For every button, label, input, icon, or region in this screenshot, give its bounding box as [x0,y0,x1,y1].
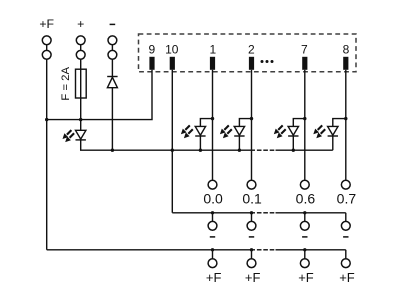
label - (input) [110,23,116,25]
junction - column / return rail [111,149,114,152]
svg-text:F = 2A: F = 2A [60,67,72,101]
terminal + a [76,36,85,45]
output terminal 0.6 [300,180,309,189]
output terminal 0.1 [247,180,256,189]
connector dashed outline [139,34,357,72]
junction minus rail ch1 [211,211,214,214]
minus distribution rail [172,212,255,214]
wire diode V1 to LED return rail [111,88,113,151]
wire pin 1 to output 0.0 [212,70,214,180]
wire LED D1 cathode to return rail [81,140,113,150]
terminal + b [76,50,85,59]
junction minus rail ch7 [303,211,306,214]
+F rail dashed continuation [257,249,274,251]
junction pin10 / return rail [171,149,174,152]
wire tap to LED D2 [200,119,212,127]
wire between + terminals [80,44,82,51]
output terminal 0.0 [208,180,217,189]
svg-text:1: 1 [209,43,216,57]
junction pin 8 LED tap [344,117,347,120]
stub to minus terminal ch7 [304,213,306,222]
terminal - b [108,50,117,59]
wire + terminal to fuse [80,59,82,69]
wire between +F terminals [46,44,48,51]
stub to +F terminal ch8 [345,250,347,259]
wire LED D5 to return rail [332,136,334,150]
wire LED D2 to return rail [199,136,201,150]
svg-text:0.6: 0.6 [296,191,316,207]
pin 7 contact [302,57,307,70]
label - ch7 [302,236,307,238]
label - ch8 [343,236,348,238]
wire fuse to + rail junction and LED D1 [80,98,82,130]
junction +F rail ch1 [211,248,214,251]
stub to minus terminal ch2 [251,213,253,222]
+F terminal ch2 [247,259,256,268]
+F terminal ch8 [341,259,350,268]
wire LED D3 to return rail [238,136,240,150]
junction + column / rail [79,118,82,121]
output terminal 0.7 [341,180,350,189]
fuse F1 wire through [80,69,82,98]
LED D2 [181,125,206,138]
svg-text:10: 10 [165,43,179,57]
label - ch2 [249,236,254,238]
fuse F1 body [76,69,87,98]
svg-text:+F: +F [39,17,54,31]
svg-text:2: 2 [248,43,255,57]
svg-text:0.1: 0.1 [242,191,262,207]
svg-text:9: 9 [148,43,155,57]
junction minus rail ch2 [250,211,253,214]
svg-text:+F: +F [245,270,261,285]
ellipsis pins 3..6 [261,60,274,63]
wire LED D4 to return rail [292,136,294,150]
stub to minus terminal ch1 [212,213,214,222]
stub to +F terminal ch7 [304,250,306,259]
pin 9 contact [149,57,154,70]
wire +F column down to +F rail [46,59,48,250]
+F terminal ch7 [300,259,309,268]
junction LED D3 / return rail [238,149,241,152]
pin 10 contact [170,57,175,70]
LED D4 [274,125,299,138]
LED D3 [220,125,245,138]
wire pin 9 to +F node rail [47,70,152,120]
terminal +F a [42,36,51,45]
pin 8 contact [343,57,348,70]
LED D1 (power) [63,130,86,142]
svg-text:+F: +F [339,270,355,285]
minus terminal ch1 [208,221,217,230]
stub to minus terminal ch8 [345,213,347,222]
junction LED D2 / return rail [199,149,202,152]
diode V1 triangle [107,77,117,87]
wire pin 8 to output 0.7 [345,70,347,180]
LED return rail [112,149,255,151]
LED D5 [313,125,338,138]
wire pin 7 to output 0.6 [304,70,306,180]
wire tap to LED D4 [293,119,305,127]
+F distribution rail [47,249,255,251]
+F terminal ch1 [208,259,217,268]
wire pin 2 to output 0.1 [251,70,253,180]
pin 1 contact [210,57,215,70]
wire tap to LED D5 [333,119,346,127]
diode V1 cathode bar [107,76,117,78]
LED return rail dashed continuation [257,149,274,151]
junction +F rail ch7 [303,248,306,251]
terminal - a [108,36,117,45]
stub to +F terminal ch2 [251,250,253,259]
stub to +F terminal ch1 [212,250,214,259]
LED return rail right part [276,149,333,151]
junction +F column / rail [45,118,48,121]
svg-text:+: + [77,17,84,31]
svg-text:+F: +F [206,270,222,285]
minus terminal ch2 [247,221,256,230]
junction pin 7 LED tap [303,117,306,120]
minus terminal ch8 [341,221,350,230]
minus terminal ch7 [300,221,309,230]
junction LED D4 / return rail [292,149,295,152]
wire tap to LED D3 [239,119,251,127]
minus rail dashed continuation [257,212,274,214]
wire pin 10 down to minus rail [171,70,173,213]
wire - terminal to diode V1 [111,59,113,76]
svg-text:8: 8 [343,43,350,57]
svg-text:0.0: 0.0 [203,191,223,207]
minus rail right part [276,212,346,214]
junction pin 1 LED tap [211,117,214,120]
junction +F rail ch2 [250,248,253,251]
svg-text:7: 7 [301,43,308,57]
label - ch1 [210,236,215,238]
pin 2 contact [249,57,254,70]
wire between - terminals [111,44,113,51]
terminal +F b [42,50,51,59]
+F rail right part [276,249,346,251]
svg-text:+F: +F [298,270,314,285]
junction pin 2 LED tap [250,117,253,120]
svg-text:0.7: 0.7 [337,191,357,207]
